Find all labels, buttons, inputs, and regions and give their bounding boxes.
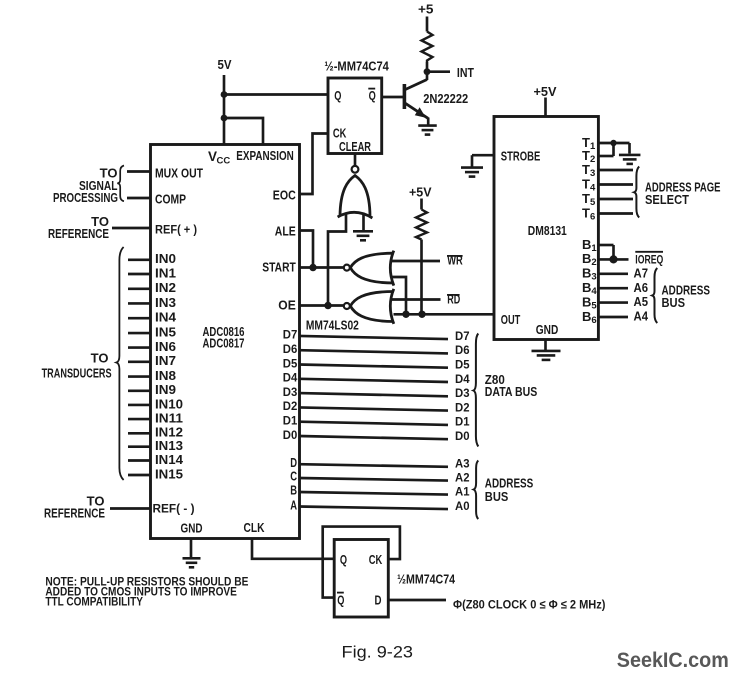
svg-text:IN5: IN5 <box>155 325 176 340</box>
svg-text:A6: A6 <box>634 280 649 295</box>
svg-text:D6: D6 <box>283 342 298 356</box>
svg-text:REF( + ): REF( + ) <box>155 223 197 237</box>
svg-text:D2: D2 <box>283 399 298 413</box>
svg-text:REFERENCE: REFERENCE <box>48 226 109 241</box>
svg-text:INT: INT <box>457 65 474 80</box>
svg-text:½MM74C74: ½MM74C74 <box>397 572 456 587</box>
svg-text:A: A <box>290 497 297 512</box>
svg-text:IN4: IN4 <box>155 310 177 325</box>
svg-text:OE: OE <box>278 298 296 313</box>
svg-text:D0: D0 <box>455 429 470 443</box>
svg-text:CC: CC <box>217 156 231 167</box>
svg-text:MM74LS02: MM74LS02 <box>306 318 359 333</box>
svg-text:Q: Q <box>369 88 376 103</box>
svg-text:TRANSDUCERS: TRANSDUCERS <box>42 366 112 381</box>
svg-text:Φ(Z80 CLOCK 0 ≤ Φ ≤ 2 MHz): Φ(Z80 CLOCK 0 ≤ Φ ≤ 2 MHz) <box>453 597 606 611</box>
svg-text:DATA BUS: DATA BUS <box>485 384 538 399</box>
svg-text:D: D <box>375 592 382 607</box>
svg-text:IN6: IN6 <box>155 339 176 354</box>
svg-text:EXPANSION: EXPANSION <box>236 148 293 163</box>
svg-text:D7: D7 <box>455 329 470 343</box>
svg-text:DM8131: DM8131 <box>528 223 567 238</box>
svg-text:BUS: BUS <box>485 489 509 504</box>
svg-text:OUT: OUT <box>501 312 521 327</box>
svg-text:BUS: BUS <box>662 295 686 310</box>
svg-text:D3: D3 <box>455 386 470 400</box>
svg-text:IN0: IN0 <box>155 251 176 266</box>
svg-text:IN9: IN9 <box>155 382 176 397</box>
svg-text:A7: A7 <box>634 266 649 281</box>
svg-text:STROBE: STROBE <box>501 149 541 164</box>
svg-text:IN13: IN13 <box>155 438 183 453</box>
svg-text:D3: D3 <box>283 385 298 399</box>
svg-text:D4: D4 <box>283 371 298 385</box>
svg-text:A3: A3 <box>455 457 470 471</box>
svg-text:A0: A0 <box>455 499 470 513</box>
svg-text:IN3: IN3 <box>155 295 176 310</box>
svg-text:IOREQ: IOREQ <box>635 253 663 267</box>
svg-text:ADC0817: ADC0817 <box>203 336 245 351</box>
svg-text:½-MM74C74: ½-MM74C74 <box>324 58 389 73</box>
svg-text:Fig. 9-23: Fig. 9-23 <box>342 643 414 661</box>
svg-text:D1: D1 <box>455 415 470 429</box>
svg-text:D5: D5 <box>283 356 298 370</box>
svg-text:PROCESSING: PROCESSING <box>53 190 118 205</box>
svg-text:D0: D0 <box>283 428 298 442</box>
svg-text:5V: 5V <box>218 57 232 72</box>
svg-text:A4: A4 <box>634 309 649 324</box>
svg-text:D1: D1 <box>283 414 298 428</box>
svg-text:D7: D7 <box>283 328 298 342</box>
svg-text:IN10: IN10 <box>155 396 183 411</box>
svg-text:Q: Q <box>340 552 347 567</box>
svg-text:IN14: IN14 <box>155 452 184 467</box>
svg-text:D5: D5 <box>455 358 470 372</box>
svg-text:IN7: IN7 <box>155 353 176 368</box>
svg-text:WR: WR <box>447 252 463 267</box>
svg-text:TO: TO <box>91 350 109 365</box>
svg-text:+5V: +5V <box>409 186 432 200</box>
svg-text:IN11: IN11 <box>155 411 183 426</box>
svg-text:IN8: IN8 <box>155 368 176 383</box>
svg-text:CLEAR: CLEAR <box>339 139 371 154</box>
svg-text:A2: A2 <box>455 470 470 484</box>
svg-text:B: B <box>290 483 297 498</box>
svg-text:GND: GND <box>536 322 559 337</box>
svg-text:MUX OUT: MUX OUT <box>155 166 203 181</box>
svg-text:EOC: EOC <box>273 188 296 203</box>
svg-text:RD: RD <box>447 292 460 307</box>
svg-text:CK: CK <box>369 552 383 567</box>
svg-text:IN15: IN15 <box>155 466 183 481</box>
svg-text:SELECT: SELECT <box>645 192 689 207</box>
svg-text:C: C <box>290 469 297 484</box>
svg-text:REF( - ): REF( - ) <box>153 502 195 516</box>
svg-text:+5: +5 <box>418 2 434 16</box>
svg-text:Q: Q <box>334 88 341 103</box>
svg-text:D6: D6 <box>455 343 470 357</box>
svg-text:2N22222: 2N22222 <box>423 91 468 106</box>
svg-text:START: START <box>262 260 296 275</box>
svg-text:+5V: +5V <box>534 85 558 99</box>
svg-text:CLK: CLK <box>244 520 265 535</box>
svg-text:IN1: IN1 <box>155 265 176 280</box>
svg-text:REFERENCE: REFERENCE <box>44 506 105 521</box>
svg-text:ALE: ALE <box>275 224 296 239</box>
svg-text:GND: GND <box>181 520 203 535</box>
svg-text:A5: A5 <box>634 294 649 309</box>
svg-text:TTL COMPATIBILITY: TTL COMPATIBILITY <box>45 594 142 608</box>
svg-text:A1: A1 <box>455 484 470 498</box>
svg-text:IN2: IN2 <box>155 280 176 295</box>
svg-text:Q: Q <box>337 592 344 607</box>
svg-text:D4: D4 <box>455 372 470 386</box>
svg-text:SeekIC.com: SeekIC.com <box>617 649 729 672</box>
svg-text:COMP: COMP <box>155 191 186 206</box>
svg-text:D2: D2 <box>455 400 470 414</box>
